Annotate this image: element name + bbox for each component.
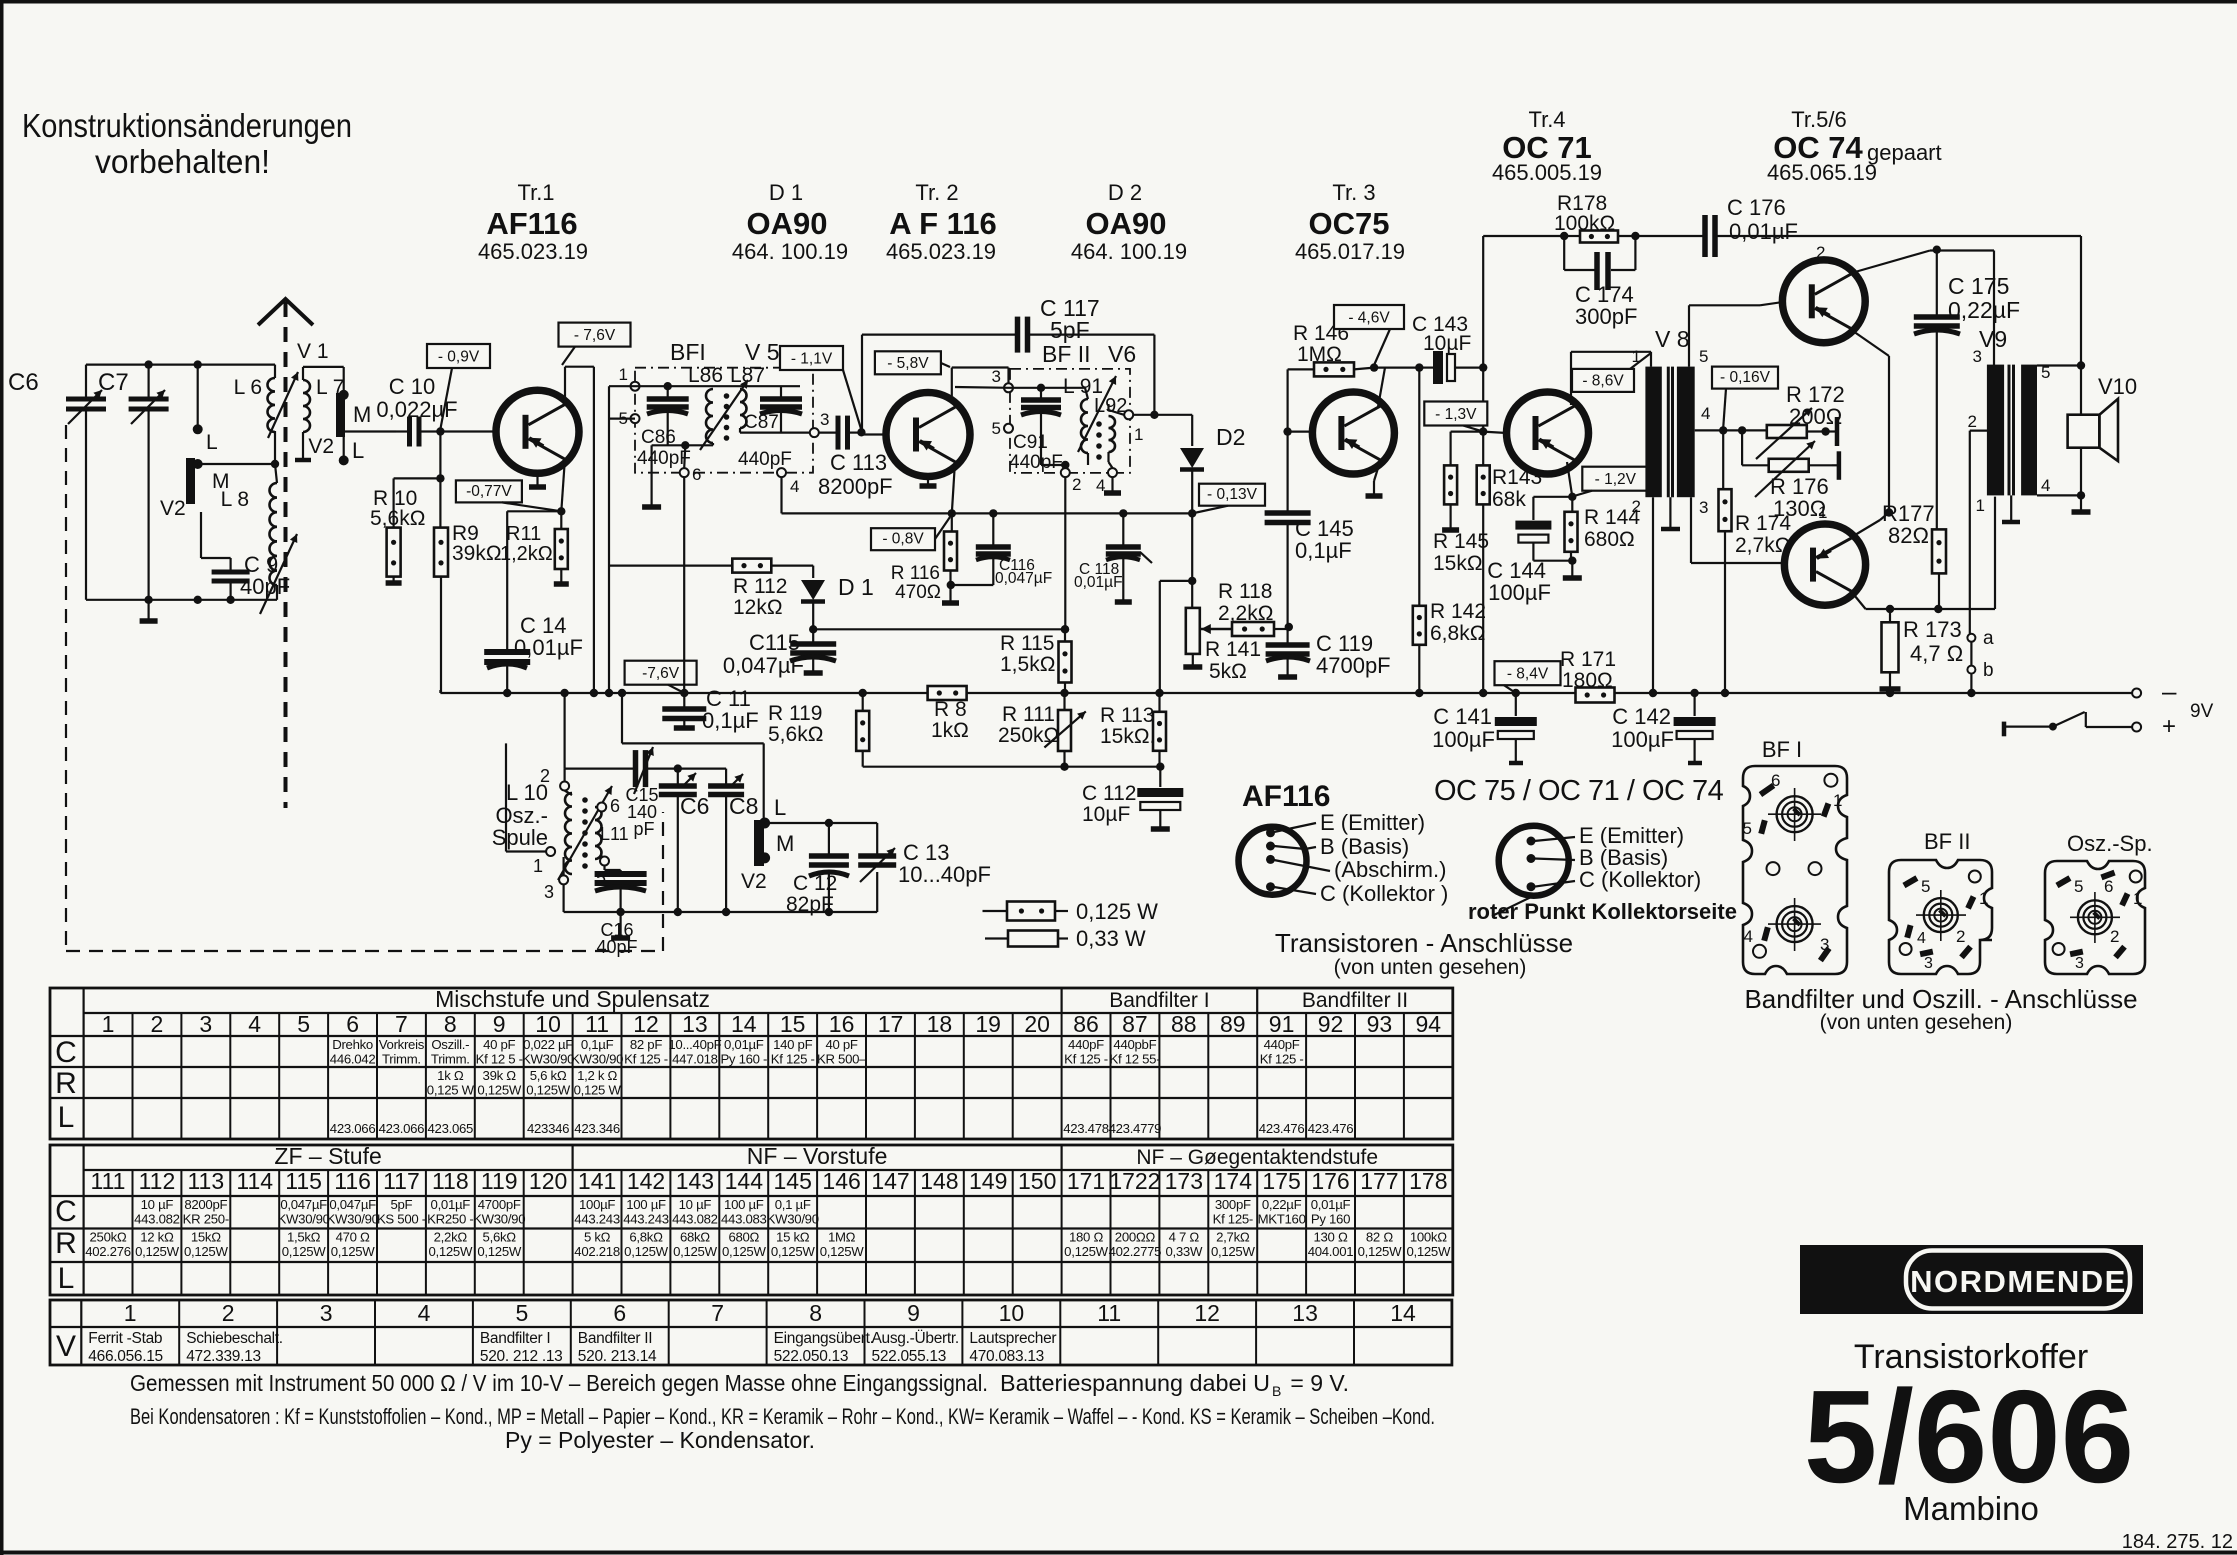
svg-text:466.056.15: 466.056.15 (88, 1348, 163, 1365)
capacitor C176 0,01uF (1705, 195, 2081, 257)
svg-text:R 173: R 173 (1903, 617, 1962, 642)
core arrow L6/L7 (268, 372, 298, 438)
feedback line C176 (1483, 232, 1705, 240)
pin 5 BFI (619, 409, 640, 428)
svg-text:NF – Gøegentaktendstufe: NF – Gøegentaktendstufe (1136, 1146, 1378, 1169)
svg-text:AF116: AF116 (1242, 780, 1330, 813)
label von unten gesehen 1 (1334, 956, 1527, 979)
bandfilter BFII dashed box (1010, 369, 1130, 473)
coil L91 (1063, 375, 1103, 453)
svg-text:443.082: 443.082 (672, 1212, 718, 1227)
svg-text:1: 1 (1818, 503, 1827, 522)
svg-text:0,047µF: 0,047µF (995, 570, 1052, 587)
svg-text:147: 147 (871, 1168, 909, 1194)
svg-text:Tr.4: Tr.4 (1528, 107, 1565, 132)
svg-text:0,125W: 0,125W (477, 1244, 522, 1259)
svg-text:423.065: 423.065 (428, 1121, 474, 1136)
resistor R177 82 ohm (1882, 501, 1946, 613)
label 184.275.12 (2122, 1531, 2233, 1553)
svg-text:0,01µF: 0,01µF (431, 1197, 471, 1212)
svg-text:Bandfilter II: Bandfilter II (578, 1330, 653, 1347)
svg-text:4: 4 (248, 1011, 261, 1037)
svg-text:5pF: 5pF (390, 1197, 412, 1212)
pinout OC circle (1499, 826, 1569, 896)
svg-text:12 kΩ: 12 kΩ (140, 1230, 174, 1245)
svg-text:0,125W: 0,125W (331, 1244, 376, 1259)
svg-text:= 9 V.: = 9 V. (1284, 1370, 1349, 1396)
svg-text:Mischstufe und Spulensatz: Mischstufe und Spulensatz (435, 986, 710, 1012)
svg-text:1: 1 (1976, 496, 1985, 515)
svg-text:B: B (1272, 1383, 1281, 1399)
table 3 V parts (50, 1300, 1452, 1365)
label M mid switch (776, 831, 794, 856)
node V2 bottom (194, 596, 202, 604)
svg-text:404.001: 404.001 (1308, 1244, 1354, 1259)
svg-text:86: 86 (1073, 1011, 1099, 1037)
svg-text:0,01µF: 0,01µF (1729, 219, 1798, 244)
svg-text:Lautsprecher: Lautsprecher (969, 1330, 1056, 1347)
svg-text:3: 3 (2075, 955, 2084, 972)
voltage callout -4,6V (1334, 305, 1404, 365)
svg-text:E (Emitter): E (Emitter) (1320, 810, 1425, 835)
svg-text:423346: 423346 (527, 1121, 569, 1136)
table 1 Mischstufe und Spulensatz (50, 986, 1453, 1139)
svg-text:1MΩ: 1MΩ (1297, 343, 1342, 366)
svg-text:149: 149 (969, 1168, 1007, 1194)
svg-text:KW30/90: KW30/90 (473, 1212, 525, 1227)
svg-text:Konstruktionsänderungen: Konstruktionsänderungen (22, 107, 352, 144)
antenna ferrite rod V1 dashed (258, 299, 313, 808)
resistor R10 5,6k (370, 478, 425, 583)
supply rail -7,6V horizontal (440, 692, 2136, 694)
Tr.4 emitter node -1,2V (1567, 462, 1577, 501)
svg-text:89: 89 (1220, 1011, 1246, 1037)
svg-text:R 171: R 171 (1560, 648, 1616, 671)
label AF116 pinout title (1242, 780, 1330, 813)
node collector line Tr.3 (1370, 363, 1378, 371)
note Gemessen mit Instrument (130, 1370, 1349, 1399)
Tr.2 collector wire (952, 368, 1009, 397)
svg-text:0,01µF: 0,01µF (724, 1037, 764, 1052)
transistor Tr.4 OC71 (1507, 392, 1589, 474)
svg-text:Eingangsübert.: Eingangsübert. (774, 1330, 874, 1347)
svg-text:R 119: R 119 (768, 702, 822, 725)
svg-text:0,33W: 0,33W (1165, 1244, 1202, 1259)
diode D2 (1180, 415, 1245, 514)
svg-text:82pF: 82pF (786, 893, 834, 916)
svg-text:Kf 125 -: Kf 125 - (771, 1052, 815, 1067)
svg-text:144: 144 (725, 1168, 764, 1194)
pinout AF116 leader lines (1274, 823, 1330, 894)
svg-text:13: 13 (1292, 1300, 1318, 1326)
svg-text:gepaart: gepaart (1867, 140, 1942, 165)
svg-text:5,6 kΩ: 5,6 kΩ (530, 1068, 567, 1083)
svg-text:119: 119 (481, 1168, 518, 1194)
svg-text:0,125W: 0,125W (526, 1083, 571, 1098)
ground oscillator (611, 912, 630, 938)
svg-text:3: 3 (1973, 347, 1982, 366)
svg-text:145: 145 (774, 1168, 812, 1194)
svg-text:Kf 125 -: Kf 125 - (1064, 1052, 1108, 1067)
svg-text:0,33 W: 0,33 W (1076, 926, 1146, 951)
voltage callout -1,2V (1574, 467, 1648, 496)
top bus wire (86, 364, 275, 366)
svg-text:443.083: 443.083 (721, 1212, 767, 1227)
svg-text:10: 10 (999, 1300, 1025, 1326)
svg-text:11: 11 (1097, 1300, 1121, 1326)
svg-text:0,125W: 0,125W (184, 1244, 229, 1259)
svg-text:V10: V10 (2098, 374, 2137, 399)
svg-text:94: 94 (1416, 1011, 1442, 1037)
coupling dots L91 L92 (1096, 421, 1102, 460)
bottom bus wire of input circuit (86, 599, 277, 601)
svg-text:180Ω: 180Ω (1562, 669, 1613, 692)
svg-text:39kΩ: 39kΩ (452, 542, 502, 565)
node D1 C115 (809, 625, 817, 633)
svg-text:1,5kΩ: 1,5kΩ (1000, 653, 1055, 676)
svg-text:13: 13 (682, 1011, 708, 1037)
svg-text:6,8kΩ: 6,8kΩ (629, 1230, 663, 1245)
svg-text:4700pF: 4700pF (1316, 653, 1391, 678)
ground Tr.1 shield (529, 473, 546, 487)
svg-text:115: 115 (285, 1168, 322, 1194)
wire C10 node down to R9/R10 (394, 432, 445, 483)
svg-text:Kf 12 5 -: Kf 12 5 - (476, 1052, 523, 1067)
svg-text:10 µF: 10 µF (141, 1197, 174, 1212)
voltage callout -0,13V (1194, 484, 1265, 513)
V8 pin5 wire to Tr.5 base (1689, 302, 1783, 367)
coil L8 (221, 483, 277, 585)
svg-text:V 5: V 5 (745, 339, 780, 365)
coil L7 (303, 376, 344, 432)
svg-text:C (Kollektor ): C (Kollektor ) (1320, 881, 1448, 906)
svg-text:OC75: OC75 (1309, 206, 1390, 241)
svg-text:Vorkreis: Vorkreis (379, 1037, 425, 1052)
coil L87 (730, 364, 765, 428)
svg-text:Transistoren - Anschlüsse: Transistoren - Anschlüsse (1275, 928, 1573, 958)
transformer V8 driver (1645, 326, 1694, 529)
svg-text:1722: 1722 (1109, 1168, 1160, 1194)
resistor R8 1k in rail (928, 686, 969, 742)
svg-text:0,125W: 0,125W (1064, 1244, 1109, 1259)
svg-text:117: 117 (383, 1168, 420, 1194)
svg-text:- 0,8V: - 0,8V (882, 531, 924, 548)
svg-text:- 4,6V: - 4,6V (1348, 310, 1390, 327)
label BFII (1042, 341, 1091, 367)
transistor Tr.5 OC74 upper (1782, 260, 1865, 343)
svg-text:Tr. 2: Tr. 2 (915, 180, 958, 205)
svg-text:112: 112 (139, 1168, 176, 1194)
svg-text:6: 6 (613, 1300, 626, 1326)
svg-text:5kΩ: 5kΩ (1209, 660, 1247, 683)
svg-text:6,8kΩ: 6,8kΩ (1430, 622, 1485, 645)
Tr.1 collector wire to rail (565, 367, 594, 693)
svg-text:C 141: C 141 (1433, 704, 1492, 729)
label 5/606 (1804, 1363, 2134, 1510)
svg-text:4: 4 (418, 1300, 431, 1326)
V8 pin2 wire to rail (1649, 497, 1657, 697)
svg-text:C7: C7 (98, 369, 129, 396)
node rail collector Tr.1 (590, 689, 598, 697)
svg-text:100kΩ: 100kΩ (1554, 212, 1615, 235)
svg-text:4: 4 (1744, 927, 1753, 946)
svg-text:R 113: R 113 (1100, 704, 1154, 727)
resistor R144 680 (1563, 497, 1641, 578)
svg-text:5 kΩ: 5 kΩ (584, 1230, 611, 1245)
svg-text:100kΩ: 100kΩ (1410, 1230, 1447, 1245)
pinout OC labels (1579, 823, 1701, 892)
svg-text:176: 176 (1311, 1168, 1349, 1194)
svg-text:C: C (55, 1036, 77, 1069)
coil L10 Osz-Spule (492, 766, 572, 874)
capacitor C86 440pF (637, 386, 691, 469)
svg-text:Oszill.-: Oszill.- (431, 1037, 469, 1052)
svg-text:2: 2 (1632, 497, 1641, 516)
svg-text:472.339.13: 472.339.13 (186, 1348, 261, 1365)
svg-text:15 kΩ: 15 kΩ (776, 1230, 810, 1245)
svg-text:5,6kΩ: 5,6kΩ (483, 1230, 517, 1245)
svg-text:465.065.19: 465.065.19 (1767, 160, 1877, 185)
svg-text:17: 17 (878, 1011, 904, 1037)
svg-text:10µF: 10µF (1423, 332, 1471, 355)
svg-text:KW30/90: KW30/90 (571, 1052, 623, 1067)
label L left switch (206, 431, 218, 454)
svg-text:4: 4 (1917, 930, 1926, 947)
label roter Punkt Kollektorseite (1468, 899, 1737, 924)
label V2 mid switch (741, 870, 767, 893)
svg-text:Kf 12 55-: Kf 12 55- (1109, 1052, 1160, 1067)
wire rail to L10 top (563, 693, 565, 769)
svg-text:L: L (58, 1262, 75, 1295)
ground input circuit (140, 600, 158, 621)
svg-text:2: 2 (1072, 475, 1081, 494)
svg-text:0,125W: 0,125W (771, 1244, 816, 1259)
svg-text:2,7kΩ: 2,7kΩ (1216, 1230, 1250, 1245)
svg-text:7: 7 (711, 1300, 724, 1326)
svg-text:C 10: C 10 (389, 374, 435, 399)
svg-text:0,022 µF: 0,022 µF (523, 1037, 573, 1052)
svg-text:V 8: V 8 (1655, 326, 1690, 352)
osc plate pins (2053, 870, 2143, 972)
svg-text:OA90: OA90 (1086, 206, 1167, 241)
label Bandfilter und Oszill-Anschluesse (1744, 984, 2137, 1014)
svg-text:C 112: C 112 (1082, 782, 1136, 805)
svg-text:173: 173 (1165, 1168, 1203, 1194)
svg-text:D 1: D 1 (769, 180, 803, 205)
svg-text:R 142: R 142 (1430, 600, 1486, 623)
svg-text:V6: V6 (1108, 341, 1136, 367)
svg-text:447.018: 447.018 (672, 1052, 718, 1067)
svg-text:200ΩΩ: 200ΩΩ (1115, 1230, 1156, 1245)
svg-text:L11: L11 (600, 824, 629, 844)
svg-text:14: 14 (1390, 1300, 1416, 1326)
svg-text:116: 116 (334, 1168, 371, 1194)
svg-text:KR 500–: KR 500– (817, 1052, 867, 1067)
svg-text:10...40pF: 10...40pF (898, 862, 991, 887)
transformer V9 output (1979, 326, 2037, 522)
trimmer capacitor C6 (antenna) (8, 365, 106, 600)
svg-text:1: 1 (2133, 889, 2142, 908)
ground Tr.2 shield (920, 477, 937, 487)
capacitor C144 100uF electrolytic (1487, 497, 1572, 605)
NORDMENDE logo (1800, 1245, 2143, 1314)
svg-text:-7,6V: -7,6V (642, 665, 680, 682)
svg-text:470Ω: 470Ω (895, 582, 941, 603)
svg-text:1: 1 (102, 1011, 115, 1037)
svg-text:L: L (352, 438, 364, 463)
node rail BFI pin6 branch (605, 689, 613, 697)
svg-text:4 7 Ω: 4 7 Ω (1169, 1230, 1200, 1245)
svg-text:440pF: 440pF (1009, 452, 1063, 473)
wire C10 node to Tr.1 base (440, 430, 496, 432)
capacitor C113 8200pF (818, 416, 893, 499)
rail end minus terminal (2132, 676, 2213, 722)
node C9 bottom (226, 596, 234, 604)
svg-text:1: 1 (1979, 889, 1988, 908)
pin 1 BFI (619, 365, 640, 391)
svg-text:520. 212 .13: 520. 212 .13 (480, 1348, 563, 1365)
svg-text:KR250 -: KR250 - (427, 1212, 473, 1227)
resistor R9 39k (434, 478, 502, 693)
pinout OC leader lines (1492, 837, 1575, 916)
label BFI (670, 339, 706, 365)
capacitor C10 0,022uF (376, 374, 457, 447)
svg-text:177: 177 (1360, 1168, 1398, 1194)
svg-text:C 12: C 12 (793, 872, 837, 895)
wire switch to C10 (345, 430, 396, 432)
node C10 out (436, 427, 444, 435)
capacitor C117 5pF (862, 295, 1154, 430)
svg-text:8200pF: 8200pF (184, 1197, 227, 1212)
svg-text:5,6kΩ: 5,6kΩ (370, 507, 425, 530)
trimmer capacitor C15 140pF (625, 747, 658, 839)
svg-text:- 0,9V: - 0,9V (438, 349, 480, 366)
svg-text:Bandfilter I: Bandfilter I (480, 1330, 551, 1347)
svg-text:2: 2 (151, 1011, 164, 1037)
voltage callout -8,6V (1572, 353, 1651, 392)
svg-text:V2: V2 (160, 497, 186, 520)
svg-text:148: 148 (920, 1168, 958, 1194)
capacitor C175 0,22uF (1914, 250, 2020, 529)
svg-text:100 µF: 100 µF (724, 1197, 764, 1212)
V9 pin5 wire (2037, 236, 2085, 370)
capacitor C143 10uF electrolytic horizontal (1412, 313, 1483, 384)
capacitor C116 0,047uF (951, 509, 1052, 587)
core arrow L10 (558, 786, 612, 880)
svg-text:0,125W: 0,125W (820, 1244, 865, 1259)
node C7 bottom (144, 596, 152, 604)
core arrow L91 (1078, 376, 1116, 452)
label V5 (745, 339, 780, 365)
transistor Tr.6 OC74 lower (1784, 524, 1865, 605)
svg-text:443.243: 443.243 (623, 1212, 669, 1227)
svg-text:15kΩ: 15kΩ (191, 1230, 221, 1245)
svg-text:0,125 W: 0,125 W (1076, 899, 1158, 924)
svg-text:440pbF: 440pbF (1113, 1037, 1156, 1052)
wire D2 to volume pot (1160, 513, 1197, 693)
resistor R11 1,2k (500, 511, 569, 584)
svg-text:180 Ω: 180 Ω (1069, 1230, 1103, 1245)
resistor R119 5,6k (768, 689, 869, 767)
svg-text:1kΩ: 1kΩ (931, 719, 969, 742)
svg-text:440pF: 440pF (1264, 1037, 1300, 1052)
label D1 OA90 (732, 180, 848, 264)
capacitor C9 40pF (201, 512, 290, 600)
BFII plate core (1916, 890, 1966, 941)
svg-text:-0,77V: -0,77V (466, 483, 512, 500)
node V2 branch top (194, 360, 202, 368)
node C7 top (144, 360, 152, 368)
diode D1 (801, 566, 874, 630)
coil L87 bottom to pin3 (740, 428, 810, 433)
svg-text:465.005.19: 465.005.19 (1492, 160, 1602, 185)
pin 5 L11 (596, 852, 621, 888)
svg-text:5: 5 (1921, 877, 1930, 896)
BFI plate upper core (1768, 788, 1821, 841)
svg-text:ZF – Stufe: ZF – Stufe (274, 1143, 381, 1169)
svg-text:5: 5 (1743, 819, 1752, 838)
svg-text:464. 100.19: 464. 100.19 (1071, 239, 1187, 264)
svg-text:20: 20 (1024, 1011, 1050, 1037)
resistor R115 1,5k (1000, 625, 1072, 693)
svg-text:0,047µF: 0,047µF (723, 653, 804, 678)
svg-text:D 1: D 1 (838, 574, 874, 600)
svg-text:a: a (1983, 628, 1994, 649)
note Konstruktionsaenderungen vorbehalten (22, 107, 352, 180)
node -0,77V (557, 507, 565, 515)
svg-text:M: M (353, 402, 371, 427)
svg-text:4: 4 (790, 477, 799, 496)
svg-text:6: 6 (610, 796, 620, 816)
capacitor C16 40pF (595, 874, 647, 957)
node rail C11 -7,6V (680, 689, 688, 697)
node C113 to Tr.2 base (857, 428, 865, 436)
label Tr.3 OC75 (1295, 180, 1405, 264)
resistor R146 1M (1288, 322, 1375, 376)
voltage callout -1,3V (1424, 402, 1487, 432)
svg-text:470 Ω: 470 Ω (336, 1230, 370, 1245)
svg-text:L 6: L 6 (234, 376, 262, 399)
voltage callout -0,8V (871, 517, 950, 550)
voltage callout -8,4V (1495, 661, 1561, 693)
Tr.3 collector wire (1374, 368, 1419, 407)
oscillator top wire (565, 767, 727, 769)
svg-text:250kΩ: 250kΩ (998, 724, 1059, 747)
Tr.2 emitter node (948, 462, 956, 518)
svg-text:423.4779: 423.4779 (1109, 1121, 1162, 1136)
svg-text:OA90: OA90 (747, 206, 828, 241)
pin 3 BFII (992, 367, 1013, 392)
svg-text:V: V (56, 1330, 76, 1363)
battery switch (2004, 712, 2176, 740)
BFII plate pins (1900, 871, 1989, 973)
svg-text:423.346: 423.346 (574, 1121, 620, 1136)
svg-text:Gemessen mit Instrument 50 00: Gemessen mit Instrument 50 000 Ω / V im … (130, 1370, 988, 1396)
voltage callout -5,8V (875, 351, 950, 374)
coupling dots L86 L87 (724, 393, 730, 441)
bandfilter BFI plate diagram (1743, 766, 1847, 974)
svg-text:0,125W: 0,125W (673, 1244, 718, 1259)
svg-text:6: 6 (2104, 877, 2113, 896)
oscillator coil plate diagram (2045, 831, 2153, 974)
svg-text:NORDMENDE: NORDMENDE (1910, 1264, 2127, 1299)
svg-text:250kΩ: 250kΩ (90, 1230, 127, 1245)
svg-text:- 5,8V: - 5,8V (887, 355, 929, 372)
svg-text:9: 9 (907, 1300, 920, 1326)
svg-text:402.276: 402.276 (85, 1244, 131, 1259)
svg-text:12kΩ: 12kΩ (733, 596, 783, 619)
svg-text:- 0,13V: - 0,13V (1207, 486, 1258, 503)
